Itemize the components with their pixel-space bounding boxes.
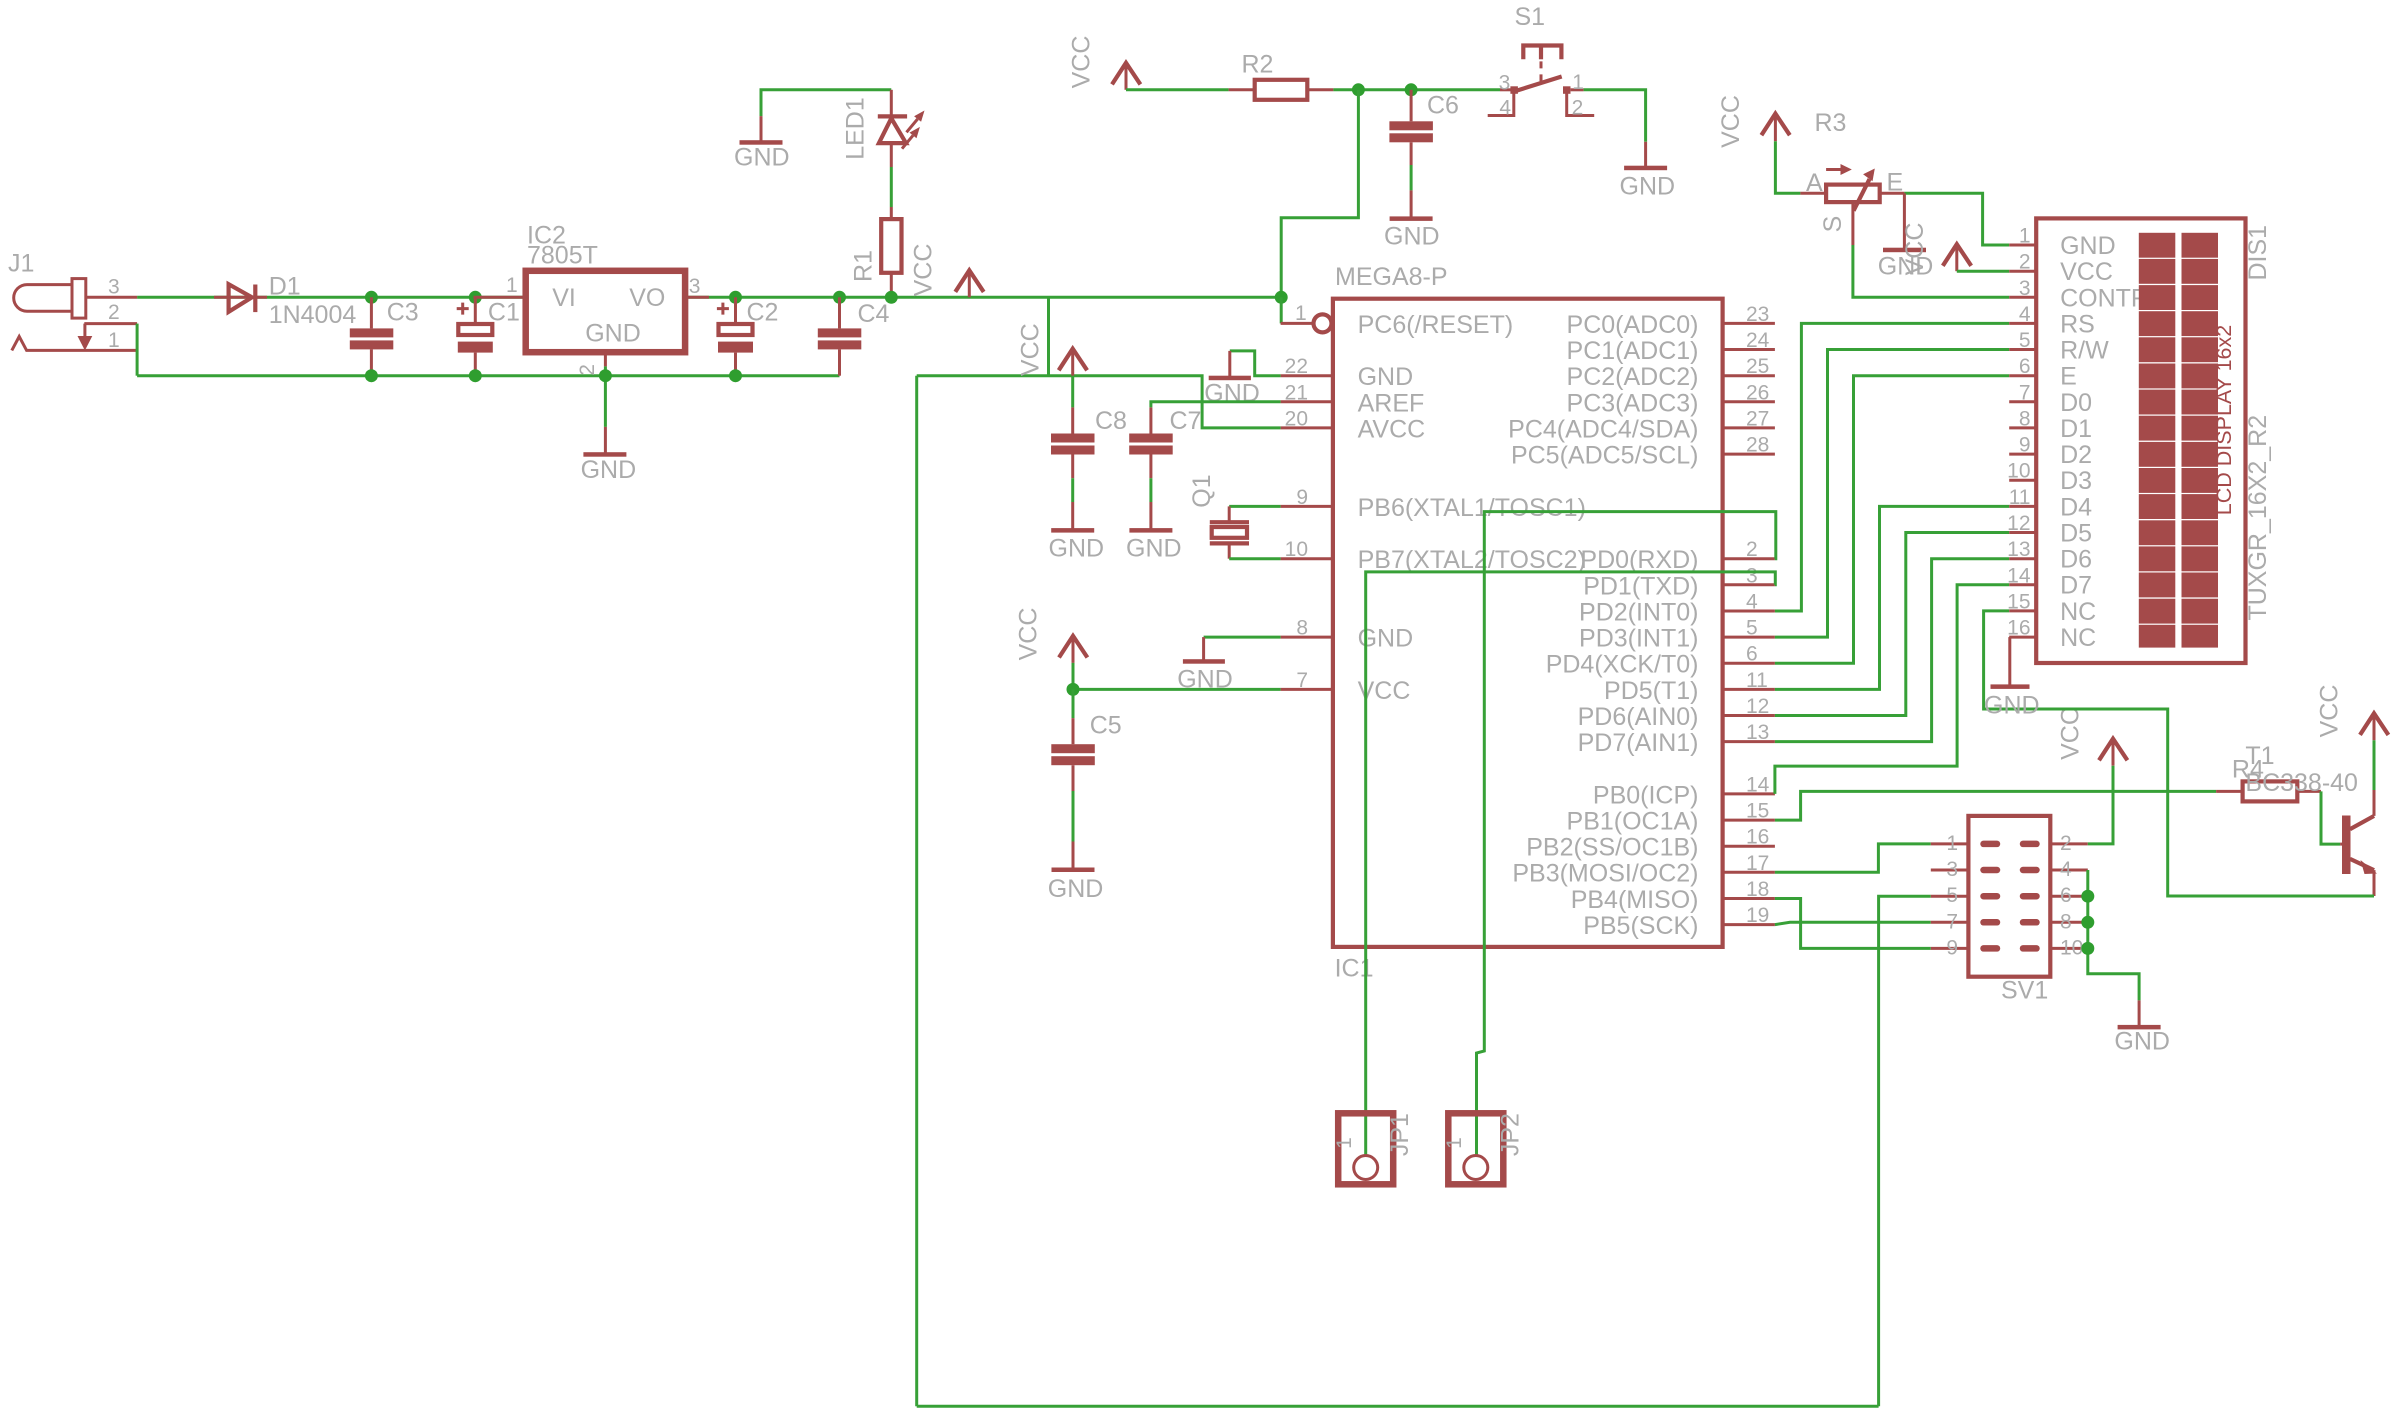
label GND (pin 22) (1204, 379, 1260, 407)
svg-text:23: 23 (1746, 303, 1769, 326)
svg-text:10: 10 (2060, 936, 2083, 959)
svg-text:LCD DISPLAY 16x2: LCD DISPLAY 16x2 (2212, 325, 2236, 515)
svg-text:PB0(ICP): PB0(ICP) (1593, 781, 1699, 809)
label C3 (387, 299, 419, 327)
label GND (below C6) (1384, 223, 1440, 251)
svg-text:PD1(TXD): PD1(TXD) (1583, 572, 1698, 600)
svg-text:8: 8 (2060, 910, 2072, 933)
ground symbol below C6 (1390, 190, 1433, 221)
wire: R3 wiper S to LCD CONTR (1853, 245, 2009, 297)
svg-text:D4: D4 (2060, 493, 2092, 521)
svg-text:27: 27 (1746, 407, 1769, 430)
wire: R2 to reset node and switch S1 (1333, 88, 1500, 91)
svg-text:14: 14 (2007, 564, 2031, 587)
ground symbol below SV1 (2118, 1000, 2161, 1029)
pin number J1-3 (108, 276, 120, 299)
svg-text:26: 26 (1746, 381, 1769, 404)
svg-text:1: 1 (108, 329, 120, 352)
LED1 emission arrow 1 (907, 111, 925, 133)
svg-text:GND: GND (1620, 173, 1676, 201)
wire: AREF pin 21 to C7 (1151, 402, 1281, 408)
ground symbol at pin 8 (1183, 637, 1225, 664)
label C7 (1170, 407, 1202, 435)
svg-text:3: 3 (2019, 277, 2031, 300)
svg-text:D1: D1 (2060, 415, 2092, 443)
svg-text:1: 1 (2019, 225, 2031, 248)
svg-text:5: 5 (1946, 884, 1958, 907)
label GND (left of LED1) (734, 144, 790, 172)
svg-text:D1: D1 (269, 272, 301, 300)
svg-text:1: 1 (1333, 1137, 1356, 1149)
label GND (below C5) (1048, 875, 1104, 903)
svg-text:D3: D3 (2060, 467, 2092, 495)
svg-text:1: 1 (1946, 832, 1958, 855)
svg-text:PB4(MISO): PB4(MISO) (1571, 886, 1699, 914)
connector SV1 (1931, 816, 2088, 977)
svg-text:PC1(ADC1): PC1(ADC1) (1567, 337, 1699, 365)
capacitor C4 (818, 297, 862, 375)
svg-text:PC3(ADC3): PC3(ADC3) (1567, 389, 1699, 417)
svg-text:PB3(MOSI/OC2): PB3(MOSI/OC2) (1512, 860, 1698, 888)
label R2 (1242, 51, 1274, 79)
wire: R3 pin E to LCD GND pin 1 (1904, 193, 2009, 245)
label GND (pin 8) (1177, 666, 1233, 694)
wire: IC2 pin2 to ground rail and GND symbol (604, 366, 607, 427)
svg-text:6: 6 (2019, 355, 2031, 378)
supply symbol VCC (T1 collector) (2360, 713, 2388, 740)
label C2 (747, 299, 779, 327)
svg-text:12: 12 (2007, 512, 2030, 535)
junction dot C1 bottom (469, 369, 482, 382)
label GND (below C7) (1126, 535, 1182, 563)
pin 7 VCC stub (1281, 688, 1333, 691)
svg-text:4: 4 (1746, 591, 1758, 614)
supply symbol VCC (right of R1) (955, 270, 983, 297)
svg-text:7805T: 7805T (527, 242, 598, 270)
svg-text:J1: J1 (8, 250, 34, 278)
label SV1 (2001, 976, 2048, 1004)
right side pin stubs 23-28 (1723, 323, 1775, 454)
svg-text:2: 2 (108, 301, 120, 324)
supply symbol VCC (above R3) (1761, 114, 1789, 142)
label C8 (1095, 407, 1127, 435)
junction dot C3 bottom (365, 369, 378, 382)
svg-text:AVCC: AVCC (1358, 415, 1426, 443)
label IC2 (527, 222, 566, 250)
svg-text:8: 8 (2019, 407, 2031, 430)
svg-text:20: 20 (1285, 407, 1308, 430)
svg-text:BC338-40: BC338-40 (2245, 769, 2358, 797)
wire: VCC rail to AVCC pin 20 (917, 376, 1281, 428)
svg-text:C1: C1 (488, 299, 520, 327)
wire: PD1 pin 3 to JP1 (1366, 572, 1776, 1156)
label C4 (858, 300, 890, 328)
capacitor C1 (polarized) (457, 297, 493, 375)
junction dot reset net at R2 (1352, 83, 1365, 96)
svg-text:C6: C6 (1427, 92, 1459, 120)
label VCC (SV1, rotated) (2057, 707, 2085, 760)
svg-text:PC6(/RESET): PC6(/RESET) (1358, 311, 1514, 339)
supply symbol VCC (above C8) (1059, 349, 1087, 376)
wire: C5 to GND (1072, 791, 1075, 842)
label S1 (1515, 3, 1546, 31)
svg-text:9: 9 (2019, 434, 2031, 457)
svg-text:VI: VI (552, 284, 576, 312)
right pin numbers 2-13 (1746, 538, 1769, 744)
junction dot SV1 pin 6 (2081, 890, 2094, 903)
svg-text:3: 3 (1746, 564, 1758, 587)
svg-text:R/W: R/W (2060, 337, 2109, 365)
svg-text:R2: R2 (1242, 51, 1274, 79)
wire: LED anode to R1 (890, 167, 893, 207)
capacitor C2 (polarized) (717, 297, 753, 375)
value BC338-40 (2245, 769, 2358, 797)
wire: S1 pin1 to GND (1584, 90, 1646, 142)
svg-text:D0: D0 (2060, 389, 2092, 417)
pin number 1 (1295, 302, 1307, 325)
svg-text:LED1: LED1 (842, 97, 870, 160)
svg-text:GND: GND (1384, 223, 1440, 251)
svg-text:10: 10 (1285, 538, 1308, 561)
svg-text:24: 24 (1746, 329, 1770, 352)
svg-text:R1: R1 (850, 250, 878, 282)
svg-text:VCC: VCC (2060, 258, 2113, 286)
crystal Q1 (1210, 506, 1281, 558)
svg-text:1N4004: 1N4004 (269, 301, 357, 329)
svg-text:3: 3 (1946, 858, 1958, 881)
wire: VCC to LCD pin 2 (1957, 270, 2009, 273)
right pin names PC0-PC5 (1508, 311, 1698, 470)
svg-text:PD4(XCK/T0): PD4(XCK/T0) (1546, 651, 1699, 679)
ground symbol below S1 (1624, 142, 1667, 170)
svg-text:IC1: IC1 (1335, 955, 1374, 983)
svg-text:13: 13 (1746, 721, 1769, 744)
pin number 7 (1296, 669, 1308, 692)
svg-text:E: E (2060, 363, 2077, 391)
wire: VCC loop bottom rail (917, 1405, 1879, 1408)
svg-text:GND: GND (2114, 1028, 2170, 1056)
svg-text:C8: C8 (1095, 407, 1127, 435)
svg-text:10: 10 (2007, 460, 2030, 483)
resistor R4 (2216, 781, 2321, 801)
svg-text:12: 12 (1746, 695, 1769, 718)
ground symbol at pin 22 (stem up, bar at wire level) (1209, 351, 1251, 380)
wire: SV1 pins 4,6,8,10 bus to GND (2088, 870, 2139, 1000)
resistor R2 (1229, 80, 1334, 100)
svg-text:S1: S1 (1515, 3, 1546, 31)
jumper JP2 (1448, 1113, 1503, 1184)
svg-text:PC4(ADC4/SDA): PC4(ADC4/SDA) (1508, 415, 1698, 443)
label VCC (LCD pin 2, rotated) (1901, 223, 1929, 276)
label R3 (1815, 109, 1847, 137)
svg-text:GND: GND (1126, 535, 1182, 563)
pin 20 AVCC stub (1281, 426, 1333, 429)
pin name GND (IC2) (585, 320, 641, 348)
pin 8 GND stub (1281, 636, 1333, 639)
svg-text:D5: D5 (2060, 519, 2092, 547)
wire: C8 to GND (1071, 478, 1074, 502)
label Q1 (rotated) (1188, 474, 1216, 507)
svg-text:3: 3 (689, 275, 701, 298)
label GND (below S1) (1620, 173, 1676, 201)
svg-text:2: 2 (2019, 251, 2031, 274)
svg-text:16: 16 (2007, 617, 2030, 640)
junction dot VCC/C5 (1067, 683, 1080, 696)
wire: PD0 pin 2 to JP2 (1477, 512, 1776, 1156)
wire: PB5 pin 19 to SV1 pin 7 (1775, 922, 1931, 924)
pin label A (1806, 169, 1823, 197)
svg-text:4: 4 (2019, 303, 2031, 326)
svg-text:PD2(INT0): PD2(INT0) (1579, 598, 1698, 626)
wire: PB3 pin 17 to SV1 pin 1 (1775, 844, 1931, 872)
diode D1 1N4004 (214, 284, 267, 312)
voltage regulator IC2 7805T (473, 271, 709, 367)
junction dot C3 top (365, 291, 378, 304)
label GND (below LCD) (1984, 692, 2040, 720)
svg-text:PD7(AIN1): PD7(AIN1) (1578, 729, 1699, 757)
LED1 emission arrow 2 (902, 127, 920, 149)
label R4 (2232, 756, 2264, 784)
junction dot C4 top (833, 291, 846, 304)
wire: top VCC rail from 7805 output to MEGA8 reset node (685, 296, 1281, 299)
pin number 22 (1285, 355, 1308, 378)
wire: VCC to R2 (1126, 88, 1229, 91)
wire: PD4 pin 6 to LCD E (1775, 376, 2009, 664)
label R1 (rotated) (850, 250, 878, 282)
pin name GND (1358, 363, 1414, 391)
wire: VCC down to SV1 pin 2 (2088, 766, 2113, 844)
pin number JP1-1 (rotated) (1333, 1137, 1356, 1149)
svg-text:C4: C4 (858, 300, 890, 328)
svg-text:CONTR: CONTR (2060, 284, 2149, 312)
value LCD DISPLAY 16x2 (rotated, red) (2212, 325, 2236, 515)
svg-text:PB2(SS/OC1B): PB2(SS/OC1B) (1526, 834, 1698, 862)
svg-text:C7: C7 (1170, 407, 1202, 435)
svg-text:9: 9 (1296, 486, 1308, 509)
wire: pin 22 to GND symbol (n-shaped) (1230, 351, 1281, 376)
pin 9 XTAL1 stub (1281, 505, 1333, 508)
svg-text:7: 7 (1296, 669, 1308, 692)
svg-text:MEGA8-P: MEGA8-P (1335, 263, 1448, 291)
svg-text:1: 1 (1295, 302, 1307, 325)
pin name VI (552, 284, 576, 312)
pin number 20 (1285, 407, 1308, 430)
svg-text:VCC: VCC (909, 244, 937, 297)
svg-text:GND: GND (1984, 692, 2040, 720)
svg-text:C5: C5 (1090, 712, 1122, 740)
svg-text:Q1: Q1 (1188, 474, 1216, 507)
svg-text:PD3(INT1): PD3(INT1) (1579, 625, 1698, 653)
pin number J1-2 (108, 301, 120, 324)
svg-text:PC0(ADC0): PC0(ADC0) (1567, 311, 1699, 339)
pin number 8 (1296, 617, 1308, 640)
pin number 9 (1296, 486, 1308, 509)
svg-text:PD6(AIN0): PD6(AIN0) (1578, 703, 1699, 731)
pin number S1-1 (1572, 71, 1584, 94)
svg-text:3: 3 (108, 276, 120, 299)
ground symbol below R3 pin E (1883, 193, 1926, 252)
supply symbol VCC (LCD pin 2) (1943, 244, 1971, 271)
IC U1: MEGA8-P body (1333, 299, 1723, 947)
wire: PD7 pin 13 to LCD D6 (1775, 559, 2009, 742)
wire: PB0 pin 14 to LCD D7 (1775, 585, 2009, 794)
jumper JP1 (1338, 1113, 1393, 1184)
pin number 21 (1285, 381, 1308, 404)
junction dot SV1 pin 8 (2081, 916, 2094, 929)
value TUXGR_16X2_R2 (rotated) (2244, 415, 2272, 621)
wire: top power rail from J1 to 7805 input (137, 296, 526, 299)
pin number 10 (1285, 538, 1308, 561)
SV1 right pin numbers (2060, 832, 2083, 960)
label C5 (1090, 712, 1122, 740)
wire: PD2 pin 4 to LCD RS (1775, 323, 2009, 611)
LCD display DIS1 body (2036, 218, 2245, 663)
transistor T1 BC338-40 (2340, 790, 2377, 896)
label VCC (above R3, rotated) (1717, 95, 1745, 148)
svg-text:11: 11 (1746, 669, 1768, 692)
pin name PB6(XTAL1/TOSC1) (1358, 494, 1586, 522)
wire: PB1 pin 15 to R4 (1775, 791, 2216, 820)
svg-text:4: 4 (1499, 96, 1511, 119)
label JP2 (rotated) (1497, 1113, 1525, 1156)
svg-text:15: 15 (2007, 591, 2030, 614)
svg-text:C3: C3 (387, 299, 419, 327)
svg-text:VCC: VCC (1901, 223, 1929, 276)
pin name PB7(XTAL2/TOSC2) (1358, 546, 1586, 574)
junction dot IC2 pin2 on rail (599, 369, 612, 382)
pin label E (1887, 169, 1904, 197)
wire: C6 to GND (1410, 165, 1413, 190)
wire: C7 to GND (1149, 478, 1152, 502)
svg-text:11: 11 (2009, 486, 2031, 509)
value 7805T (527, 242, 598, 270)
wire: J1 pin2 down to ground rail (136, 324, 139, 376)
SV1 left pin numbers (1946, 832, 1958, 960)
pin 10 XTAL2 stub (1281, 557, 1333, 560)
svg-text:GND: GND (1358, 363, 1414, 391)
svg-text:4: 4 (2060, 858, 2072, 881)
pin name VO (629, 284, 665, 312)
svg-text:VO: VO (629, 284, 665, 312)
LCD character cells left column (2139, 233, 2176, 648)
supply symbol VCC (above C5) (1059, 636, 1087, 663)
pin number IC2-2 (rotated) (576, 364, 599, 376)
svg-text:9: 9 (1946, 936, 1958, 959)
svg-text:GND: GND (581, 456, 637, 484)
pin name AVCC (1358, 415, 1426, 443)
svg-text:R3: R3 (1815, 109, 1847, 137)
svg-text:D6: D6 (2060, 546, 2092, 574)
svg-text:JP1: JP1 (1386, 1113, 1414, 1156)
wire: VCC loop up to SV1 pin 5 (1879, 896, 1931, 1406)
wire: bottom ground rail (137, 374, 839, 377)
right pin numbers 23-28 (1746, 303, 1770, 457)
connector J1 power jack (12, 279, 137, 351)
label T1 (2245, 742, 2274, 770)
wire: R4 to T1 base (2321, 791, 2340, 844)
LCD pin stubs 1-16 (2009, 245, 2036, 637)
svg-text:D7: D7 (2060, 572, 2092, 600)
label GND (below IC2) (581, 456, 637, 484)
LED LED1 (878, 90, 907, 167)
wire: PB4 pin 18 to SV1 pin 9 (1775, 899, 1931, 949)
label GND (below R3) (1878, 253, 1934, 281)
label C6 (1427, 92, 1459, 120)
ground symbol below IC2 (583, 427, 626, 457)
svg-text:PC5(ADC5/SCL): PC5(ADC5/SCL) (1511, 442, 1699, 470)
pin 22 GND stub (1281, 374, 1333, 377)
label DIS1 (rotated) (2244, 225, 2272, 281)
label VCC (right of R1, rotated) (909, 244, 937, 297)
potentiometer R3 (1800, 164, 1904, 245)
LCD pin names (2060, 232, 2149, 652)
svg-text:PD0(RXD): PD0(RXD) (1580, 546, 1698, 574)
svg-text:1: 1 (1572, 71, 1584, 94)
wire: T1 emitter to LCD backlight pin 15 (1984, 611, 2374, 896)
svg-text:5: 5 (2019, 329, 2031, 352)
label LED1 (rotated) (842, 97, 870, 160)
label VCC (above C8, rotated) (1016, 323, 1044, 376)
svg-text:13: 13 (2007, 538, 2030, 561)
svg-text:PD5(T1): PD5(T1) (1604, 677, 1698, 705)
svg-text:C2: C2 (747, 299, 779, 327)
ground symbol below C5 (1052, 842, 1095, 873)
label VCC (T1, rotated) (2315, 685, 2343, 738)
svg-text:RS: RS (2060, 310, 2095, 338)
wire: LED cathode top elbow to GND (761, 90, 891, 116)
svg-text:D2: D2 (2060, 441, 2092, 469)
svg-text:E: E (1887, 169, 1904, 197)
svg-text:7: 7 (2019, 381, 2031, 404)
right side pin stubs 2-13 (1723, 559, 1775, 742)
wire: VCC drop from top rail down to AVCC rail (1047, 297, 1050, 375)
svg-text:NC: NC (2060, 598, 2096, 626)
svg-text:PB6(XTAL1/TOSC1): PB6(XTAL1/TOSC1) (1358, 494, 1586, 522)
svg-text:JP2: JP2 (1497, 1113, 1525, 1156)
svg-text:VCC: VCC (1015, 608, 1043, 661)
svg-text:5: 5 (1746, 617, 1758, 640)
label GND (below SV1) (2114, 1028, 2170, 1056)
pin name AREF (1358, 389, 1425, 417)
junction dot C6 top (1405, 83, 1418, 96)
svg-text:2: 2 (576, 364, 599, 376)
svg-text:DIS1: DIS1 (2244, 225, 2272, 281)
wire: PD3 pin 5 to LCD R/W (1775, 350, 2009, 638)
svg-text:14: 14 (1746, 773, 1770, 796)
svg-text:GND: GND (1048, 875, 1104, 903)
ground symbol below C8 (1051, 502, 1094, 533)
svg-text:VCC: VCC (1016, 323, 1044, 376)
pin name GND (1358, 625, 1414, 653)
capacitor C8 (1051, 376, 1095, 479)
junction dot C2 bottom (729, 369, 742, 382)
ground symbol below LCD pin 16 (1991, 637, 2030, 689)
svg-text:3: 3 (1499, 72, 1511, 95)
pin number IC2-1 (506, 274, 518, 297)
capacitor C7 (1129, 407, 1173, 478)
LCD character cells right column (2182, 233, 2219, 648)
svg-text:22: 22 (1285, 355, 1308, 378)
svg-text:2: 2 (1572, 96, 1584, 119)
label C1 (488, 299, 520, 327)
resistor R1 (881, 207, 901, 297)
pin 1 PC6(/RESET) with inversion circle (1281, 314, 1332, 332)
svg-text:25: 25 (1746, 355, 1769, 378)
pin number J1-1 (108, 329, 120, 352)
svg-text:SV1: SV1 (2001, 976, 2048, 1004)
svg-text:VCC: VCC (1717, 95, 1745, 148)
wire: reset net down to MEGA8 pin 1 (1281, 90, 1358, 297)
